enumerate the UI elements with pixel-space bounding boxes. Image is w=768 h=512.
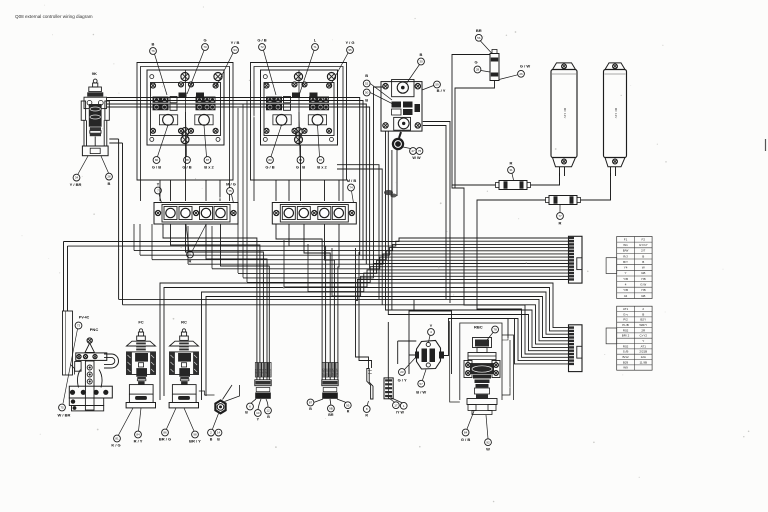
wire 9K to blocks row2 xyxy=(107,101,363,261)
svg-text:S./B: S./B xyxy=(623,350,629,354)
leader G/Y to CN3 xyxy=(405,357,417,370)
wire RC base to hex xyxy=(199,391,215,395)
leader TS1 to R xyxy=(186,225,206,252)
svg-text:87: 87 xyxy=(206,158,210,162)
leader Y/G to K2 xyxy=(330,53,348,86)
svg-text:B29: B29 xyxy=(623,360,629,364)
label R below FL2 xyxy=(557,213,564,226)
wire loop around K2 xyxy=(251,63,347,202)
svg-text:BR / Y: BR / Y xyxy=(189,439,201,444)
svg-text:94: 94 xyxy=(233,48,237,52)
leads P1 xyxy=(251,399,269,410)
leader G to fuse xyxy=(481,71,490,73)
label B for 9K xyxy=(106,173,113,186)
harness plug P2 xyxy=(322,363,338,399)
svg-text:B: B xyxy=(365,73,368,78)
svg-text:59: 59 xyxy=(435,83,439,87)
label G/B below K1 left xyxy=(152,157,161,170)
svg-text:RBC: RBC xyxy=(474,325,483,330)
leader FC to K/G xyxy=(119,408,134,435)
svg-text:71: 71 xyxy=(313,45,317,49)
leads P2 xyxy=(312,399,348,406)
svg-text:B: B xyxy=(642,312,644,316)
leader RBC circle xyxy=(487,333,493,341)
wire to connector C xyxy=(356,248,372,368)
leader B-left to RY xyxy=(370,84,393,273)
svg-text:Y/B: Y/B xyxy=(641,277,646,281)
solenoid valve 9K xyxy=(81,71,109,156)
connector block CN2 xyxy=(569,325,583,372)
connector C xyxy=(367,369,373,400)
label PNC xyxy=(90,327,99,332)
label BR/G below RC xyxy=(159,429,171,441)
svg-text:Q08 external controller wiring: Q08 external controller wiring diagram xyxy=(15,14,93,19)
svg-text:B x 2: B x 2 xyxy=(317,165,327,170)
label RC xyxy=(181,320,187,325)
label BR above fuse xyxy=(475,28,482,41)
wire K2 to TS2 xyxy=(276,145,339,201)
wire tags on plugs xyxy=(256,368,339,376)
harness plug P1 xyxy=(255,363,271,399)
label Y/G above K2 xyxy=(345,40,354,53)
svg-text:G / B: G / B xyxy=(461,437,470,442)
svg-text:44: 44 xyxy=(624,294,628,298)
leader FL2 to R xyxy=(559,205,561,213)
leader to K2 centre xyxy=(299,112,300,157)
leader C to R xyxy=(367,401,368,406)
svg-text:M / B: M / B xyxy=(347,178,357,183)
svg-text:R: R xyxy=(559,221,562,226)
wire to connector D xyxy=(387,322,389,378)
svg-text:B/Y: B/Y xyxy=(623,260,628,264)
svg-text:26: 26 xyxy=(519,72,523,76)
svg-text:81: 81 xyxy=(115,437,119,441)
svg-text:B: B xyxy=(108,181,111,186)
leader RBC to W xyxy=(486,415,488,439)
label B at P1 right xyxy=(265,407,272,419)
relay unit RY xyxy=(381,80,422,132)
labels W W below RY xyxy=(410,148,423,160)
label BR/Y below RC xyxy=(189,431,201,443)
svg-text:IY W: IY W xyxy=(396,411,404,415)
label FC xyxy=(138,320,143,325)
svg-text:92: 92 xyxy=(486,440,490,444)
label B at P2 left xyxy=(307,399,314,411)
label W below RBC xyxy=(485,439,492,452)
svg-text:G / B: G / B xyxy=(265,165,274,170)
svg-text:Y: Y xyxy=(430,323,433,328)
svg-text:80: 80 xyxy=(268,158,272,162)
svg-text:84: 84 xyxy=(136,433,140,437)
svg-text:B: B xyxy=(217,438,220,442)
wire FL1 stub xyxy=(452,185,464,188)
label R above FL1 xyxy=(508,161,515,174)
leader M/B to TS2 xyxy=(352,191,354,203)
svg-text:56: 56 xyxy=(477,36,481,40)
svg-text:95: 95 xyxy=(348,48,352,52)
wire bus to CN2 xyxy=(119,81,569,400)
svg-text:31: 31 xyxy=(509,168,513,172)
wire frame around CN3 xyxy=(409,300,452,374)
svg-text:G / B: G / B xyxy=(152,165,161,170)
leader RBC to G/B xyxy=(467,411,474,429)
wire 9K to blocks row3 xyxy=(107,104,366,265)
label G/Y at CN3 xyxy=(398,369,407,383)
leader to K1 coil right xyxy=(204,125,207,157)
leader BR to fuse xyxy=(481,41,492,53)
label G/B below RBC xyxy=(461,429,470,442)
svg-text:F2: F2 xyxy=(641,237,645,241)
svg-text:B: B xyxy=(309,407,312,411)
svg-text:Y / G: Y / G xyxy=(345,40,354,45)
svg-text:75: 75 xyxy=(418,149,422,153)
battery BT1 xyxy=(551,63,577,176)
battery BT2 xyxy=(604,63,627,176)
junction smudge xyxy=(384,190,397,198)
svg-text:BR / G: BR / G xyxy=(159,437,171,442)
svg-text:G / B: G / B xyxy=(257,38,266,43)
wire RY right to bus xyxy=(423,122,450,304)
svg-text:Y4: Y4 xyxy=(624,266,628,270)
label Y above TS1 xyxy=(155,182,162,194)
relay contactor block K1 xyxy=(147,70,224,145)
svg-text:B: B xyxy=(642,254,644,258)
leader W to stud xyxy=(403,147,411,149)
svg-text:G: G xyxy=(203,38,206,43)
labels B B below hex xyxy=(208,429,222,441)
svg-text:98: 98 xyxy=(193,433,197,437)
svg-text:B: B xyxy=(642,260,644,264)
label R/Y below FC xyxy=(134,431,143,443)
label Y/BR for 9K xyxy=(70,174,82,187)
svg-text:AT1: AT1 xyxy=(623,307,629,311)
diamond connector CN3 xyxy=(415,341,444,370)
leader RC to BR/Y xyxy=(184,408,194,431)
wire CN3 left xyxy=(398,341,417,364)
wire 9K side out xyxy=(109,139,122,305)
svg-text:Y/B: Y/B xyxy=(623,288,628,292)
svg-text:W / BR: W / BR xyxy=(58,413,71,418)
leader L to K2 xyxy=(300,51,315,95)
label circle P2 xyxy=(75,322,82,329)
svg-text:G / W: G / W xyxy=(520,64,530,69)
wire RBC right 1 xyxy=(502,338,508,340)
svg-text:MF 12V: MF 12V xyxy=(614,108,618,119)
label Y above CN3 xyxy=(428,323,435,335)
label B/W at CN3 xyxy=(416,380,426,394)
wire 9K to blocks row4 xyxy=(107,107,370,269)
label G/B below K1 mid xyxy=(182,157,191,170)
svg-text:11.9B: 11.9B xyxy=(639,360,647,364)
leader B to RY xyxy=(406,65,420,85)
wire K1 to TS1 xyxy=(160,145,220,201)
leader R to FL1 xyxy=(512,174,514,181)
label Y at P1 mid xyxy=(254,410,261,422)
svg-text:F1: F1 xyxy=(624,237,628,241)
svg-text:75: 75 xyxy=(228,189,232,193)
wire PNC risers xyxy=(64,242,68,312)
fusible link FL1 xyxy=(496,181,531,190)
svg-text:B2Y: B2Y xyxy=(640,318,646,322)
svg-text:52: 52 xyxy=(365,82,369,86)
label BR at P2 mid xyxy=(328,405,335,417)
svg-text:30: 30 xyxy=(419,60,423,64)
label G above K1 xyxy=(202,38,209,51)
leader FC to R/Y xyxy=(139,408,142,431)
label G/B below K2 left xyxy=(265,157,274,170)
svg-text:B: B xyxy=(152,42,155,47)
svg-text:75: 75 xyxy=(60,406,64,410)
svg-text:50: 50 xyxy=(365,91,369,95)
terminal strip TS1 xyxy=(154,203,238,225)
svg-text:76: 76 xyxy=(151,49,155,53)
svg-text:AT1: AT1 xyxy=(641,344,647,348)
svg-text:PL/B: PL/B xyxy=(622,323,629,327)
svg-text:W W: W W xyxy=(412,156,421,160)
leader 9K to Y/BR xyxy=(78,156,88,174)
svg-text:86: 86 xyxy=(163,431,167,435)
leader Y/B to K1 xyxy=(217,53,234,86)
leader to K1 coil left xyxy=(158,125,169,157)
svg-text:RC: RC xyxy=(181,320,187,325)
svg-text:W: W xyxy=(486,447,490,452)
svg-text:78: 78 xyxy=(493,328,497,332)
svg-text:73: 73 xyxy=(77,324,81,328)
svg-text:BR: BR xyxy=(476,28,482,33)
svg-text:95: 95 xyxy=(346,403,350,407)
svg-text:G / B: G / B xyxy=(182,165,191,170)
svg-text:BR/W2: BR/W2 xyxy=(336,368,339,376)
label K/G below FC xyxy=(111,435,120,447)
relay contactor block K2 xyxy=(261,70,338,145)
solenoid valve RC xyxy=(169,329,198,408)
connector D xyxy=(384,378,393,399)
label G/W right of fuse xyxy=(518,64,531,78)
wire RBC outer left xyxy=(450,321,460,402)
svg-text:W9: W9 xyxy=(623,366,628,370)
wire 9K to blocks row1 xyxy=(107,98,360,256)
svg-text:G / Y: G / Y xyxy=(398,378,407,383)
svg-text:B: B xyxy=(365,98,368,103)
svg-text:R / Y: R / Y xyxy=(134,439,143,444)
svg-text:GB: GB xyxy=(641,271,645,275)
svg-text:Y / BR: Y / BR xyxy=(70,182,82,187)
wire stud down xyxy=(392,150,397,310)
svg-text:R/J: R/J xyxy=(623,254,628,258)
label Bx2 below K2 xyxy=(317,157,327,170)
solenoid valve RBC xyxy=(464,338,500,415)
svg-text:77: 77 xyxy=(558,214,562,218)
svg-text:K / G: K / G xyxy=(111,443,120,448)
label L above K2 xyxy=(312,38,319,51)
fuse holder F1 xyxy=(490,50,499,81)
svg-text:57: 57 xyxy=(420,382,424,386)
wire fuse to bus xyxy=(452,55,496,186)
svg-text:87: 87 xyxy=(309,401,313,405)
leader M/G to TS1 xyxy=(232,195,234,204)
wire FL1 to BT1 xyxy=(531,173,560,185)
svg-text:MF 12V: MF 12V xyxy=(563,108,567,119)
label PV-4C xyxy=(79,316,90,320)
solenoid valve FC xyxy=(126,329,155,408)
leader Y to CN3 xyxy=(429,336,431,343)
label R below connector C xyxy=(363,406,370,418)
svg-text:9K: 9K xyxy=(92,71,97,76)
svg-text:12: 12 xyxy=(266,409,270,413)
label Y/B above K1 xyxy=(231,40,240,53)
wire harness TS2 to plug P2 xyxy=(276,225,339,380)
svg-text:74: 74 xyxy=(349,186,353,190)
svg-text:PNC: PNC xyxy=(90,327,99,332)
wire RBC right 2 xyxy=(502,335,514,400)
labels below connector D xyxy=(393,402,408,415)
svg-text:G/BR2: G/BR2 xyxy=(269,368,272,376)
svg-text:10: 10 xyxy=(256,411,260,415)
svg-text:B / W: B / W xyxy=(416,390,426,395)
leader P2 long xyxy=(63,329,78,404)
label R below TS1 xyxy=(187,251,194,263)
PNC pedal assembly xyxy=(63,311,119,411)
svg-text:B / Y: B / Y xyxy=(437,88,446,93)
leader B/W to CN3 xyxy=(423,370,427,381)
svg-text:R: R xyxy=(510,161,513,166)
svg-text:87: 87 xyxy=(319,158,323,162)
label G left of fuse xyxy=(474,60,481,73)
svg-text:72: 72 xyxy=(260,45,264,49)
svg-text:28: 28 xyxy=(107,175,111,179)
svg-text:34: 34 xyxy=(75,176,79,180)
svg-text:17: 17 xyxy=(394,403,398,407)
svg-text:Y / B: Y / B xyxy=(231,40,240,45)
svg-text:Y: Y xyxy=(157,182,160,187)
connector block CN1 xyxy=(569,236,583,283)
svg-text:GY/17: GY/17 xyxy=(639,243,648,247)
signal table T2 xyxy=(606,306,652,370)
wire frame around RBC xyxy=(460,323,502,400)
leader RC to BR/G xyxy=(167,408,177,429)
label circle at RBC xyxy=(492,326,499,333)
svg-text:Y: Y xyxy=(625,271,627,275)
svg-text:28: 28 xyxy=(476,68,480,72)
wire FL2 to BT2 xyxy=(581,173,611,200)
leader hex to labels xyxy=(213,414,219,430)
leader 9K to B xyxy=(101,156,109,173)
svg-text:23: 23 xyxy=(400,370,404,374)
svg-text:Y/B: Y/B xyxy=(623,277,628,281)
label B above RY xyxy=(418,52,425,65)
svg-text:2/21B: 2/21B xyxy=(639,350,647,354)
label M/G above TS1 xyxy=(226,182,236,195)
leader to K2 coil left xyxy=(271,125,282,157)
label B above K1 xyxy=(150,42,157,55)
label B at P1 left xyxy=(245,403,253,414)
leader to K2 coil right xyxy=(318,125,320,157)
svg-text:R: R xyxy=(347,410,350,414)
svg-text:WR/Y: WR/Y xyxy=(639,323,647,327)
hex fitting xyxy=(215,401,225,414)
svg-text:GB: GB xyxy=(641,294,645,298)
label G/B below K2 mid xyxy=(296,157,305,170)
wire stubs strip area xyxy=(134,101,332,296)
svg-text:W1: W1 xyxy=(623,243,628,247)
svg-text:W: W xyxy=(642,266,645,270)
svg-text:BR: BR xyxy=(328,413,334,417)
svg-text:R02: R02 xyxy=(623,344,629,348)
label B left of RY xyxy=(363,73,370,103)
leader Y to TS1 xyxy=(159,194,162,203)
label W/BR below PNC xyxy=(58,404,71,417)
wire hex up xyxy=(223,385,240,402)
svg-text:B: B xyxy=(267,415,270,419)
svg-text:80: 80 xyxy=(155,158,159,162)
svg-text:M / G: M / G xyxy=(226,182,236,187)
fusible link FL2 xyxy=(546,196,581,205)
leader to K1 centre xyxy=(186,112,187,157)
svg-text:B/W: B/W xyxy=(623,249,629,253)
leader B to K1 xyxy=(155,54,168,95)
wire harness TS1 to plug P1 xyxy=(163,225,269,380)
svg-text:Y: Y xyxy=(642,339,644,343)
svg-text:G.W: G.W xyxy=(640,283,646,287)
svg-text:FC: FC xyxy=(138,320,143,325)
svg-text:B: B xyxy=(245,411,248,415)
terminal stud below RY xyxy=(392,132,404,150)
svg-text:9B: 9B xyxy=(329,407,333,411)
leader G to K1 xyxy=(187,51,204,95)
svg-text:R: R xyxy=(365,414,368,418)
title text xyxy=(15,14,93,19)
svg-text:14: 14 xyxy=(217,431,221,435)
leader D to labels xyxy=(388,398,403,404)
svg-text:BR/ 2: BR/ 2 xyxy=(622,334,630,338)
svg-text:G: G xyxy=(474,60,477,65)
label Bx2 below K1 xyxy=(204,157,214,170)
svg-text:PV-4C: PV-4C xyxy=(79,316,90,320)
svg-text:R02: R02 xyxy=(623,328,629,332)
wire loop around K1 xyxy=(137,63,233,202)
leader G/B to K2 xyxy=(264,51,277,96)
svg-text:B: B xyxy=(210,438,213,442)
svg-text:B/12: B/12 xyxy=(622,355,629,359)
wire bus to CN1 xyxy=(64,238,569,301)
svg-text:12A: 12A xyxy=(641,355,646,359)
label B/Y right of RY xyxy=(434,81,446,93)
svg-text:Y/B: Y/B xyxy=(641,288,646,292)
svg-text:2/7: 2/7 xyxy=(641,249,646,253)
terminal strip TS2 xyxy=(272,203,356,225)
svg-text:B: B xyxy=(420,52,423,57)
svg-text:B x 2: B x 2 xyxy=(204,165,214,170)
svg-text:70: 70 xyxy=(203,45,207,49)
label RBC text xyxy=(474,325,483,330)
leader G/W to fuse xyxy=(499,75,518,80)
label G/B above K2 xyxy=(257,38,266,51)
label M/B above TS2 xyxy=(347,178,357,191)
label R at P2 right xyxy=(344,402,351,414)
svg-text:G-v: G-v xyxy=(623,312,628,316)
svg-text:84: 84 xyxy=(464,431,468,435)
signal table T1 xyxy=(606,237,652,299)
leader B/Y to RY xyxy=(422,86,434,91)
svg-text:C+Y2: C+Y2 xyxy=(639,334,647,338)
svg-text:P/2: P/2 xyxy=(623,318,628,322)
svg-text:47: 47 xyxy=(411,149,415,153)
